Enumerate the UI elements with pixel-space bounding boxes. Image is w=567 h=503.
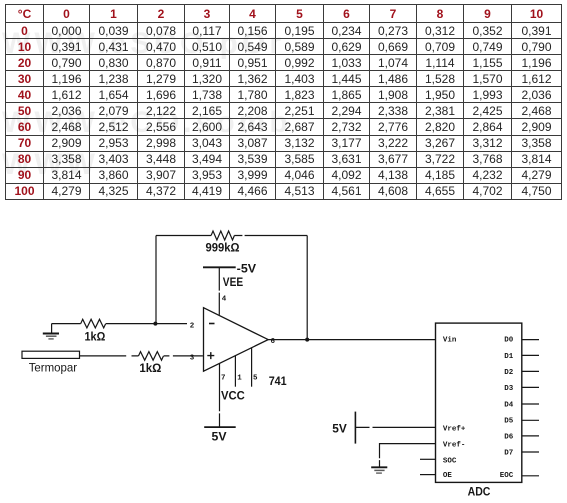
ADC pin label OE [443, 472, 453, 480]
svg-text:D7: D7 [504, 449, 513, 457]
svg-text:D1: D1 [504, 353, 514, 361]
label 741 [269, 374, 287, 388]
svg-text:2: 2 [190, 323, 195, 331]
ADC pin label D5 [504, 418, 514, 426]
VEE supply bar [203, 266, 236, 268]
wire output to ADC Vin [268, 339, 435, 341]
svg-text:D0: D0 [504, 336, 514, 344]
wire pin5 stub [251, 348, 253, 387]
label -5V [237, 262, 256, 276]
wire feedback top [156, 235, 307, 237]
wire D2 stub [522, 370, 539, 372]
wire R2 to pin 3 [164, 355, 203, 357]
svg-text:Vref+: Vref+ [443, 425, 466, 433]
svg-text:-5V: -5V [237, 262, 256, 276]
ADC block [436, 323, 522, 482]
ADC pin label Vref+ [443, 425, 466, 433]
ADC pin label EOC [500, 472, 514, 480]
svg-text:D3: D3 [504, 385, 514, 393]
svg-text:1kΩ: 1kΩ [85, 330, 106, 344]
5V reference source bar [354, 412, 356, 444]
svg-text:VEE: VEE [223, 275, 243, 289]
pin number 4 [222, 296, 227, 304]
pin number 5 [253, 375, 258, 383]
thermocouple Termopar body [22, 351, 80, 358]
ADC pin label D7 [504, 449, 513, 457]
junction dot inverting node [153, 322, 157, 326]
svg-text:7: 7 [221, 375, 226, 383]
ground G1 [43, 324, 59, 339]
ADC pin label Vref- [443, 442, 466, 450]
wire D6 stub [522, 435, 539, 437]
svg-text:EOC: EOC [500, 472, 514, 480]
wire Vref+ [355, 426, 435, 428]
svg-text:4: 4 [222, 296, 227, 304]
thermocouple voltage table [5, 4, 562, 200]
ADC pin label D6 [504, 433, 514, 441]
pin number 2 [190, 323, 195, 331]
svg-text:6: 6 [271, 338, 276, 346]
ADC pin label D1 [504, 353, 514, 361]
label ADC [468, 485, 491, 499]
wire SOC stub [420, 458, 436, 460]
ADC pin label D4 [504, 401, 514, 409]
wire D0 stub [522, 339, 539, 341]
svg-text:3: 3 [190, 354, 195, 362]
svg-text:D6: D6 [504, 433, 514, 441]
VCC supply bar 5V [204, 426, 236, 428]
svg-text:SOC: SOC [443, 457, 457, 465]
ADC pin label D0 [504, 336, 514, 344]
pin number 3 [190, 354, 195, 362]
wire Vref- to ground [380, 444, 436, 468]
pin number 7 [221, 375, 226, 383]
svg-text:5V: 5V [332, 422, 347, 436]
label VEE [223, 275, 243, 289]
wire D5 stub [522, 419, 539, 421]
svg-text:999kΩ: 999kΩ [206, 241, 240, 255]
label Termopar [29, 360, 77, 374]
wire pin1 stub [234, 356, 236, 387]
op-amp non-inverting input plus sign [207, 352, 214, 359]
wire pin4 VEE to op-amp [218, 267, 220, 315]
resistor 999k zigzag [211, 231, 234, 240]
wire OE stub [420, 474, 436, 476]
svg-text:Vref-: Vref- [443, 442, 466, 450]
svg-text:VCC: VCC [221, 389, 245, 403]
wire D3 stub [522, 386, 539, 388]
svg-text:Vin: Vin [443, 336, 457, 344]
svg-text:Termopar: Termopar [29, 360, 77, 374]
pin number 1 [237, 375, 242, 383]
value label 999kOhm [206, 241, 240, 255]
label 5V op-amp supply [212, 430, 227, 444]
svg-text:ADC: ADC [468, 485, 491, 499]
svg-text:1kΩ: 1kΩ [139, 361, 161, 375]
svg-text:D2: D2 [504, 369, 514, 377]
label VCC [221, 389, 245, 403]
wire D4 stub [522, 403, 539, 405]
ADC pin label SOC [443, 457, 457, 465]
label 5V ADC reference [332, 422, 347, 436]
svg-text:D4: D4 [504, 401, 514, 409]
resistor R1 1k zigzag (inverting input) [81, 319, 106, 328]
ADC pin label D2 [504, 369, 514, 377]
wire feedback right vertical [306, 236, 308, 340]
wire feedback left vertical [155, 236, 157, 324]
junction dot output node [305, 338, 309, 342]
svg-text:5V: 5V [212, 430, 227, 444]
svg-text:741: 741 [269, 374, 287, 388]
op-amp inverting input minus sign [209, 323, 215, 325]
wire pin7 to VCC rail [219, 363, 221, 427]
ADC pin label Vin [443, 336, 457, 344]
pin number 6 [271, 338, 276, 346]
svg-text:1: 1 [237, 375, 242, 383]
ADC pin label D3 [504, 385, 514, 393]
wire EOC stub [522, 475, 539, 477]
resistor R2 1k zigzag (non-inverting input) [139, 352, 164, 361]
ground G2 [371, 467, 387, 473]
op-amp U1 741 triangle [204, 308, 269, 372]
wire inverting input [52, 323, 187, 325]
wire D1 stub [522, 354, 539, 356]
svg-text:D5: D5 [504, 418, 514, 426]
wire D7 stub [522, 451, 539, 453]
wire thermocouple to R2 [80, 355, 139, 357]
svg-text:OE: OE [443, 472, 453, 480]
value label 1kOhm R2 [139, 361, 161, 375]
value label 1kOhm R1 [85, 330, 106, 344]
svg-text:5: 5 [253, 375, 258, 383]
